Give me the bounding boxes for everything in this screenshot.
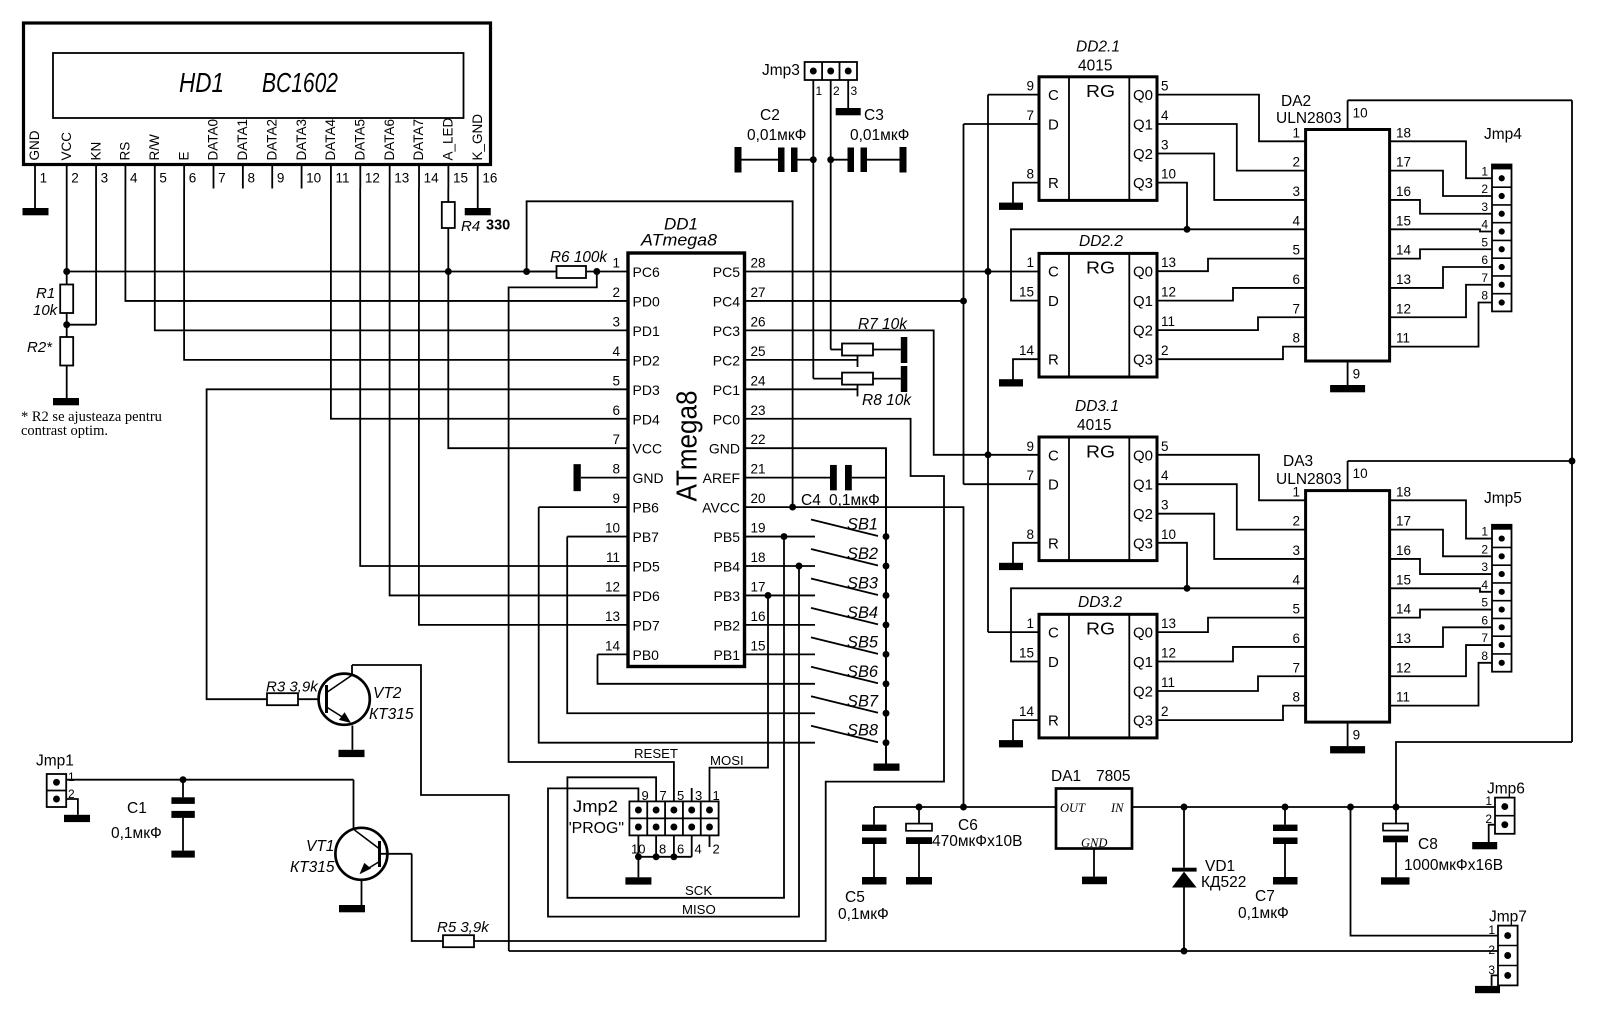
svg-text:3: 3 [695, 788, 702, 803]
svg-text:C6: C6 [958, 817, 978, 834]
wire DD3.2 Q0 to DA3 pin5 [1157, 618, 1306, 632]
button ground bus [885, 448, 887, 763]
DD1 pin 26 PC3 [713, 314, 766, 339]
wire DD3.1 Q1 to DA3 pin2 [1157, 484, 1306, 529]
svg-text:8: 8 [247, 171, 255, 186]
svg-text:3: 3 [101, 171, 109, 186]
svg-text:Jmp4: Jmp4 [1484, 126, 1522, 143]
label Jmp7 [1489, 909, 1527, 926]
wire DA3 pin 13 to Jmp5 pin 6 [1390, 627, 1492, 647]
svg-text:C: C [1048, 264, 1059, 281]
svg-text:GND: GND [27, 130, 42, 160]
Jmp7 pin3 ground [1475, 975, 1500, 993]
DD3.1 pin numbers [1026, 439, 1176, 542]
svg-text:7: 7 [218, 171, 226, 186]
svg-text:DA1: DA1 [1051, 768, 1081, 785]
DD1 pin 12 PD6 [605, 579, 660, 604]
svg-text:5: 5 [159, 171, 167, 186]
label R1 10k [33, 285, 59, 319]
LCD pin 11 (DATA4) [323, 118, 349, 188]
label C7 [1238, 888, 1289, 922]
svg-text:PB1: PB1 [714, 647, 741, 663]
svg-text:23: 23 [751, 403, 766, 418]
LCD pin 4 (RS) [118, 142, 138, 189]
svg-text:Jmp5: Jmp5 [1484, 490, 1522, 507]
svg-text:13: 13 [1396, 631, 1411, 646]
label BC1602 [262, 67, 338, 98]
svg-text:E: E [176, 151, 191, 160]
resistor R4 [442, 189, 455, 272]
svg-text:ATmega8: ATmega8 [672, 391, 704, 502]
DA2 pin 9 ground [1330, 361, 1365, 392]
wire GND pin22 to button bus [746, 448, 887, 763]
shift register DD3.1 box [1039, 437, 1157, 561]
svg-text:Q3: Q3 [1133, 352, 1153, 369]
DD1 pin 7 VCC [612, 432, 662, 457]
LCD display window [53, 53, 464, 118]
svg-text:7: 7 [1292, 301, 1300, 316]
wire PB5 to SB1 and SCK tap [746, 533, 816, 540]
svg-text:PC4: PC4 [713, 293, 740, 309]
resistor R7 [831, 337, 908, 363]
label DD3.1 [1075, 398, 1119, 415]
label C3 [850, 107, 909, 144]
switch SB4 [811, 608, 889, 628]
label SB4 [847, 604, 878, 622]
svg-text:PD0: PD0 [633, 293, 660, 309]
svg-text:18: 18 [751, 550, 766, 565]
wire Jmp3 pin1 column [810, 80, 817, 379]
svg-text:9: 9 [1353, 728, 1361, 743]
svg-text:0,1мкФ: 0,1мкФ [111, 825, 162, 842]
ground at DD1 pin 8 GND [574, 464, 629, 491]
svg-text:16: 16 [482, 171, 497, 186]
svg-text:PD4: PD4 [633, 411, 660, 427]
svg-text:14: 14 [424, 171, 440, 186]
wire MOSI from PB3 to Jmp2 pin1 [710, 595, 769, 801]
wire MISO from PB4 to Jmp2 pin9 [548, 566, 799, 917]
svg-text:5: 5 [1292, 602, 1300, 617]
svg-text:R/W: R/W [147, 134, 162, 161]
svg-text:4: 4 [1481, 578, 1488, 592]
DD1 pin 23 PC0 [713, 403, 766, 428]
driver DA2 ULN2803 box [1306, 130, 1390, 362]
label R4 330 [461, 218, 510, 236]
regulator DA1 7805 box [1056, 789, 1132, 849]
svg-text:DATA7: DATA7 [411, 119, 426, 161]
DD1 pin 27 PC4 [713, 285, 766, 310]
svg-text:1000мкФх16В: 1000мкФх16В [1404, 857, 1503, 874]
capacitor C4 [830, 465, 886, 490]
svg-text:15: 15 [453, 171, 468, 186]
svg-text:D: D [1048, 293, 1059, 310]
wire KN contrast to LCD pin 3 [67, 189, 96, 325]
wire DA3 pin 11 to Jmp5 pin 8 [1390, 663, 1492, 706]
svg-text:10k: 10k [33, 302, 59, 319]
svg-text:DA2: DA2 [1281, 93, 1311, 110]
DA1 internal labels [1060, 801, 1124, 850]
svg-text:2: 2 [1481, 182, 1488, 196]
svg-text:14: 14 [1396, 243, 1412, 258]
svg-text:PC0: PC0 [713, 411, 740, 427]
svg-text:4: 4 [130, 171, 138, 186]
svg-text:C: C [1048, 447, 1059, 464]
svg-text:PC6: PC6 [633, 264, 660, 280]
svg-text:PC5: PC5 [713, 264, 740, 280]
svg-text:3: 3 [1292, 184, 1300, 199]
svg-text:C3: C3 [864, 107, 884, 124]
ground under C1 [171, 851, 194, 858]
wire DATA4 to PD4 [331, 189, 628, 419]
svg-text:12: 12 [1396, 660, 1411, 675]
Jmp2 ground pins wire [635, 835, 710, 877]
svg-text:13: 13 [1396, 272, 1411, 287]
wire VT2 collector to lower rail [352, 665, 509, 951]
svg-text:11: 11 [1161, 675, 1175, 690]
svg-text:DATA6: DATA6 [382, 119, 397, 161]
LCD pin 13 (DATA6) [382, 119, 409, 189]
LCD pin 15 (A_LED) [441, 117, 468, 188]
Jmp2 bottom pin numbers [631, 842, 720, 857]
svg-text:9: 9 [1026, 439, 1034, 454]
svg-text:9: 9 [1026, 79, 1034, 94]
svg-text:VT2: VT2 [373, 685, 402, 702]
svg-text:VD1: VD1 [1205, 858, 1235, 875]
svg-text:5: 5 [1481, 596, 1488, 610]
ground under C6 [906, 877, 932, 885]
wire DA3 pin 14 to Jmp5 pin 5 [1390, 610, 1492, 618]
svg-text:12: 12 [605, 579, 620, 594]
label SCK [685, 883, 712, 898]
svg-text:R4: R4 [461, 218, 480, 235]
wire DD3.1 Q2 to DA3 pin3 [1157, 514, 1306, 559]
svg-text:3: 3 [1481, 200, 1488, 214]
svg-text:15: 15 [751, 638, 766, 653]
connector Jmp6 [1485, 794, 1514, 834]
svg-text:12: 12 [365, 171, 380, 186]
label C1 [111, 800, 162, 842]
svg-text:17: 17 [1396, 155, 1411, 170]
wire Jmp1 pin1 to VT1 base [66, 776, 353, 829]
svg-text:0,01мкФ: 0,01мкФ [850, 127, 909, 144]
wire PB4 to SB2 and MISO tap [746, 563, 816, 570]
svg-text:1: 1 [40, 171, 48, 186]
svg-text:DD2.1: DD2.1 [1076, 39, 1120, 56]
ground under R2 [53, 398, 79, 405]
svg-text:Q1: Q1 [1133, 477, 1153, 494]
shift register DD2.2 box [1039, 253, 1157, 377]
svg-text:Q0: Q0 [1133, 447, 1153, 464]
DD3.2 pin numbers [1019, 616, 1176, 719]
svg-text:DD2.2: DD2.2 [1079, 233, 1123, 250]
wire RESET to Jmp2 pin5 [509, 272, 674, 802]
connector Jmp1 [47, 770, 75, 807]
svg-text:2: 2 [1488, 943, 1495, 957]
svg-text:R8 10k: R8 10k [862, 392, 912, 409]
svg-text:3: 3 [851, 84, 858, 98]
svg-text:8: 8 [1481, 289, 1488, 303]
svg-text:RG: RG [1086, 81, 1115, 101]
LCD module HD1 outer box [24, 23, 491, 165]
svg-text:2: 2 [71, 171, 79, 186]
label DD2.2 [1079, 233, 1123, 250]
wire PC1 to R8 [746, 385, 858, 397]
wire DA3 pin 15 to Jmp5 pin 4 [1390, 588, 1492, 592]
svg-text:16: 16 [1396, 543, 1411, 558]
svg-text:8: 8 [659, 842, 666, 857]
svg-text:2: 2 [1292, 514, 1300, 529]
microcontroller DD1 ATmega8 box [628, 253, 745, 667]
svg-text:5: 5 [677, 788, 684, 803]
wire DA2 pin 12 to Jmp4 pin 7 [1390, 285, 1492, 318]
svg-text:1: 1 [816, 84, 823, 98]
switch SB2 [811, 549, 889, 569]
wire DA2 pin 15 to Jmp4 pin 4 [1390, 229, 1492, 231]
svg-text:R5 3,9k: R5 3,9k [437, 919, 490, 936]
svg-text:2: 2 [1161, 704, 1169, 719]
svg-text:PB0: PB0 [633, 647, 660, 663]
DD3.1 reset pin ground [999, 543, 1039, 570]
wire SCK from PB5 to Jmp2 pin7 [567, 537, 784, 898]
svg-text:DATA2: DATA2 [264, 119, 279, 161]
wire DA2 pin 14 to Jmp4 pin 5 [1390, 249, 1492, 258]
wire PC3 to DD3.1 C [746, 330, 1040, 454]
wire DA3 pin 16 to Jmp5 pin 3 [1390, 559, 1492, 574]
svg-text:RG: RG [1086, 441, 1115, 461]
DD1 pin 24 PC1 [713, 373, 766, 398]
wire DD2.1 Q2 to DA2 pin3 [1157, 154, 1306, 200]
DD1 pin 10 PB7 [605, 521, 659, 546]
wire DD3.2 Q3 to DA3 pin8 [1157, 706, 1306, 720]
wire PC4 data to DD2.1 D and DD3.1 D [746, 124, 1040, 484]
svg-text:RG: RG [1086, 258, 1115, 278]
svg-text:DATA0: DATA0 [206, 119, 221, 161]
wire DD3.2 Q2 to DA3 pin7 [1157, 676, 1306, 691]
svg-text:2: 2 [612, 285, 620, 300]
svg-text:6: 6 [612, 403, 620, 418]
DD1 pin 19 PB5 [714, 521, 766, 546]
label MISO [682, 902, 716, 917]
svg-text:1: 1 [1292, 125, 1300, 140]
resistor R3 [267, 693, 319, 705]
DA3 left pin numbers [1292, 484, 1300, 704]
svg-text:Jmp6: Jmp6 [1487, 781, 1525, 798]
connector Jmp5 [1481, 525, 1511, 672]
svg-text:4: 4 [1161, 108, 1169, 123]
LCD pin 8 (DATA1) [235, 119, 255, 189]
wire +5V to MCU VCC pin 7 [448, 272, 628, 449]
wire DA2 pin 13 to Jmp4 pin 6 [1390, 267, 1492, 288]
label SB6 [847, 663, 879, 681]
diode VD1 [1172, 807, 1197, 954]
LCD pin 2 (VCC) [59, 132, 79, 189]
svg-text:8: 8 [1026, 527, 1034, 542]
wire clock column to DD2.1 and DD3 registers [985, 95, 1039, 633]
resistor R8 [813, 366, 907, 392]
label R7 10k [858, 316, 908, 333]
svg-text:PD1: PD1 [633, 323, 660, 339]
wire DA2 pin10 to right supply riser [1348, 100, 1576, 742]
svg-text:15: 15 [1396, 572, 1411, 587]
label Jmp1 [36, 753, 74, 770]
svg-text:Q3: Q3 [1133, 713, 1153, 730]
wire DD3.1 Q3 cascade to DD3.2 D and DA3 pin4 [1011, 543, 1306, 662]
svg-text:PC2: PC2 [713, 352, 740, 368]
svg-text:470мкФх10В: 470мкФх10В [932, 833, 1022, 850]
svg-text:3: 3 [1161, 138, 1169, 153]
svg-text:3: 3 [612, 314, 620, 329]
svg-text:14: 14 [1019, 343, 1035, 358]
svg-text:9: 9 [642, 788, 649, 803]
switch SB3 [811, 578, 889, 598]
svg-text:SB1: SB1 [847, 516, 878, 534]
DD1 pin 21 AREF [703, 462, 766, 487]
resistor R1 [60, 272, 73, 329]
Jmp2 top pin numbers [642, 788, 720, 803]
svg-text:R2*: R2* [27, 339, 53, 356]
label VD1 KD522 [1201, 858, 1246, 891]
svg-text:1: 1 [1026, 255, 1034, 270]
DA2 right pin numbers [1396, 125, 1412, 345]
svg-text:10: 10 [1161, 167, 1176, 182]
label Jmp2 PROG [566, 798, 624, 837]
DD2.1 pin numbers [1026, 79, 1176, 182]
svg-text:8: 8 [612, 462, 620, 477]
svg-text:DATA5: DATA5 [353, 119, 368, 161]
svg-text:RS: RS [118, 142, 133, 161]
svg-text:4: 4 [1292, 572, 1300, 587]
svg-text:4015: 4015 [1077, 417, 1111, 434]
wire DD2.1 Q3 cascade to DD2.2 D and DA2 pin4 [1011, 183, 1306, 301]
svg-text:SB8: SB8 [847, 722, 879, 740]
svg-text:2: 2 [1481, 542, 1488, 556]
wire RS to PD0 [125, 189, 628, 301]
DD1 pin 5 PD3 [612, 373, 659, 398]
resistor R6 [527, 266, 628, 278]
capacitor C6 electrolytic [906, 807, 932, 877]
svg-text:R3 3,9k: R3 3,9k [266, 679, 319, 696]
svg-text:PD6: PD6 [633, 588, 660, 604]
svg-text:R: R [1048, 713, 1059, 730]
svg-text:PB3: PB3 [714, 588, 741, 604]
svg-text:K_GND: K_GND [470, 114, 485, 161]
svg-text:27: 27 [751, 285, 766, 300]
svg-text:C: C [1048, 87, 1059, 104]
connector Jmp7 [1488, 923, 1517, 985]
svg-text:2: 2 [1292, 155, 1300, 170]
resistor R5 [443, 935, 474, 947]
svg-text:ULN2803: ULN2803 [1276, 110, 1342, 127]
svg-text:7805: 7805 [1096, 768, 1130, 785]
wire DA3 pin 18 to Jmp5 pin 1 [1390, 500, 1492, 538]
svg-text:DATA1: DATA1 [235, 119, 250, 161]
DD1 pin 22 GND [709, 432, 766, 457]
label SB3 [847, 574, 879, 592]
svg-text:24: 24 [751, 373, 767, 388]
wire PB3 to SB3 and MOSI tap [746, 592, 816, 599]
wire PB2 to SB4 [746, 624, 816, 626]
svg-text:SB7: SB7 [847, 692, 879, 710]
DD2.2 reset pin ground [999, 359, 1039, 386]
ground under C7 [1273, 877, 1298, 885]
svg-text:PD3: PD3 [633, 382, 660, 398]
wire Jmp3 pin2 column [827, 80, 834, 350]
LCD pin 3 (KN) [88, 142, 108, 189]
wire PB1 to SB5 [746, 653, 816, 655]
DA3 pin 10 supply [1348, 461, 1368, 491]
svg-text:10: 10 [1353, 105, 1368, 120]
svg-text:10: 10 [605, 521, 620, 536]
svg-text:4: 4 [1481, 218, 1488, 232]
svg-text:4: 4 [695, 842, 702, 857]
svg-text:PB2: PB2 [714, 617, 741, 633]
svg-text:DD3.2: DD3.2 [1078, 594, 1122, 611]
svg-text:OUT: OUT [1060, 801, 1086, 815]
svg-text:C2: C2 [760, 107, 780, 124]
label DA1 7805 [1051, 768, 1130, 785]
wire E to PD2 [184, 189, 628, 360]
label VT1 KT315 [290, 838, 335, 876]
capacitor C2 [735, 147, 814, 173]
svg-text:КТ315: КТ315 [290, 859, 335, 876]
wire PD3 to R3 [207, 389, 628, 699]
svg-text:BC1602: BC1602 [262, 67, 338, 98]
capacitor C7 [1273, 807, 1298, 877]
svg-text:Jmp7: Jmp7 [1489, 909, 1527, 926]
transistor VT2 [319, 665, 370, 750]
svg-text:21: 21 [751, 462, 766, 477]
svg-text:Jmp2: Jmp2 [573, 798, 618, 816]
wire VT1 collector to R5 [380, 854, 444, 941]
svg-text:DA3: DA3 [1283, 453, 1313, 470]
svg-text:11: 11 [1396, 690, 1410, 705]
label HD1 [179, 67, 224, 98]
svg-text:5: 5 [1481, 235, 1488, 249]
capacitor C5 [862, 807, 887, 877]
label SB8 [847, 722, 879, 740]
DD1 pin 14 PB0 [605, 638, 659, 663]
DD2.2 pin numbers [1019, 255, 1176, 358]
svg-text:17: 17 [1396, 514, 1411, 529]
wire +5V over MCU to AVCC [527, 201, 796, 510]
svg-text:6: 6 [189, 171, 197, 186]
svg-text:7: 7 [612, 432, 620, 447]
svg-text:PB4: PB4 [714, 559, 741, 575]
svg-text:13: 13 [1161, 616, 1176, 631]
wire DD2.1 Q1 to DA2 pin2 [1157, 124, 1306, 171]
LCD pin 5 (R/W) [147, 134, 167, 189]
label R3 3,9k [266, 679, 319, 696]
LCD pin 16 (K_GND) [470, 114, 497, 189]
ground under C8 [1381, 877, 1410, 884]
label R8 10k [862, 392, 912, 409]
svg-text:28: 28 [751, 256, 766, 271]
svg-text:12: 12 [1161, 646, 1176, 661]
svg-text:11: 11 [1161, 314, 1175, 329]
svg-text:8: 8 [1292, 690, 1300, 705]
DD1 pin 18 PB4 [714, 550, 766, 575]
connector Jmp3 [805, 62, 858, 98]
wire DA2 pin 11 to Jmp4 pin 8 [1390, 303, 1492, 347]
svg-text:1: 1 [68, 770, 75, 784]
label DD1 [664, 215, 698, 234]
svg-text:PB6: PB6 [633, 500, 660, 516]
capacitor C8 electrolytic [1383, 807, 1408, 877]
svg-text:3: 3 [1481, 560, 1488, 574]
svg-text:PC1: PC1 [713, 382, 740, 398]
DD1 pin 6 PD4 [612, 403, 659, 428]
svg-text:AREF: AREF [703, 470, 740, 486]
